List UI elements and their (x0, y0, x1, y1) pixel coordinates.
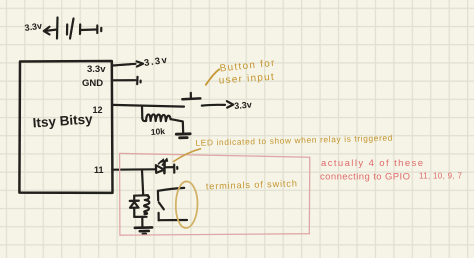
svg-text:GND: GND (82, 78, 103, 89)
LED D1 arrow 2 head (164, 158, 168, 161)
net 3.3v arrow (137, 61, 143, 66)
LED D1 wire to terminal (165, 166, 174, 168)
GND terminal tick (136, 77, 139, 84)
flyback diode D2 cathode bar (130, 199, 139, 202)
svg-text:10k: 10k (150, 126, 165, 137)
pin label 11 (94, 165, 104, 175)
IC U1 label Itsy Bitsy (32, 111, 93, 130)
svg-text:3.3v: 3.3v (87, 64, 106, 75)
push button S1 actuator (190, 93, 192, 99)
battery BT1 short plate 1 (66, 25, 68, 35)
relay K1 switch top wire (158, 188, 184, 191)
net label 3.3v at button (234, 100, 252, 111)
battery BT1 wire arrow left (44, 27, 57, 35)
GND terminal dot (140, 81, 142, 83)
pin label 12 (93, 105, 103, 115)
svg-text:3.3v: 3.3v (234, 100, 252, 111)
flyback diode D2 lower lead (133, 208, 135, 217)
LED D1 cathode bar (163, 163, 166, 174)
wire 3.3v pin to net (112, 64, 136, 66)
svg-text:connecting to GPIO: connecting to GPIO (320, 172, 410, 183)
battery BT1 label 3.3v (24, 21, 43, 33)
relay K1 switch top contact (157, 191, 160, 201)
ground G1 (176, 134, 190, 138)
flyback diode D2 upper lead (133, 196, 135, 202)
svg-text:11, 10, 9, 7: 11, 10, 9, 7 (419, 172, 463, 181)
LED D1 triangle (156, 165, 164, 173)
relay K1 coil loop bottom wire (134, 216, 146, 218)
push button S1 bar (182, 97, 200, 100)
ground G2 (135, 227, 152, 234)
wire junction drop to resistor (141, 106, 144, 118)
gold ellipse around switch terminals (176, 181, 198, 228)
pink highlight box around relay (120, 153, 310, 235)
relay K1 coil (144, 195, 149, 214)
wire pin 12 to button (112, 105, 184, 107)
LED D1 arrow 2 (162, 162, 165, 165)
LED terminal tick (173, 165, 175, 173)
svg-text:12: 12 (93, 105, 103, 115)
relay K1 switch bottom wire (159, 219, 187, 221)
wire pin 11 (112, 168, 156, 171)
LED terminal dot (176, 167, 178, 169)
net label 3.3v (143, 55, 168, 69)
battery BT1 long plate 2 (70, 19, 74, 39)
wire resistor to ground (171, 119, 183, 133)
relay K1 switch bottom contact (158, 213, 160, 221)
wire junction drop to relay coil (142, 170, 143, 195)
annotation leader to button (206, 69, 219, 85)
wire button to 3.3v net (202, 104, 225, 107)
svg-text:actually 4 of these: actually 4 of these (321, 158, 423, 169)
battery BT1 terminal tick (96, 26, 98, 34)
IC U1 Itsy Bitsy body (19, 61, 112, 193)
resistor R1 (142, 114, 170, 121)
pin label GND (82, 78, 103, 89)
battery BT1 short plate 2 (79, 25, 81, 35)
wire coil to ground (141, 217, 143, 227)
relay K1 switch arm (159, 202, 164, 209)
relay K1 coil loop top wire (134, 194, 148, 197)
battery BT1 wire right (81, 28, 97, 31)
svg-text:11: 11 (94, 165, 104, 175)
wire GND pin (112, 79, 136, 81)
net 3.3v arrow at button (227, 101, 233, 107)
flyback diode D2 triangle (130, 202, 139, 208)
battery BT1 long plate 1 (56, 18, 59, 39)
pin label 3.3v (87, 64, 106, 75)
battery BT1 terminal dot (100, 28, 102, 31)
LED D1 arrow 1 (159, 161, 162, 164)
LED D1 arrow 1 head (160, 159, 164, 162)
resistor label 10k (150, 126, 165, 137)
annotation leader to LED (174, 149, 201, 162)
